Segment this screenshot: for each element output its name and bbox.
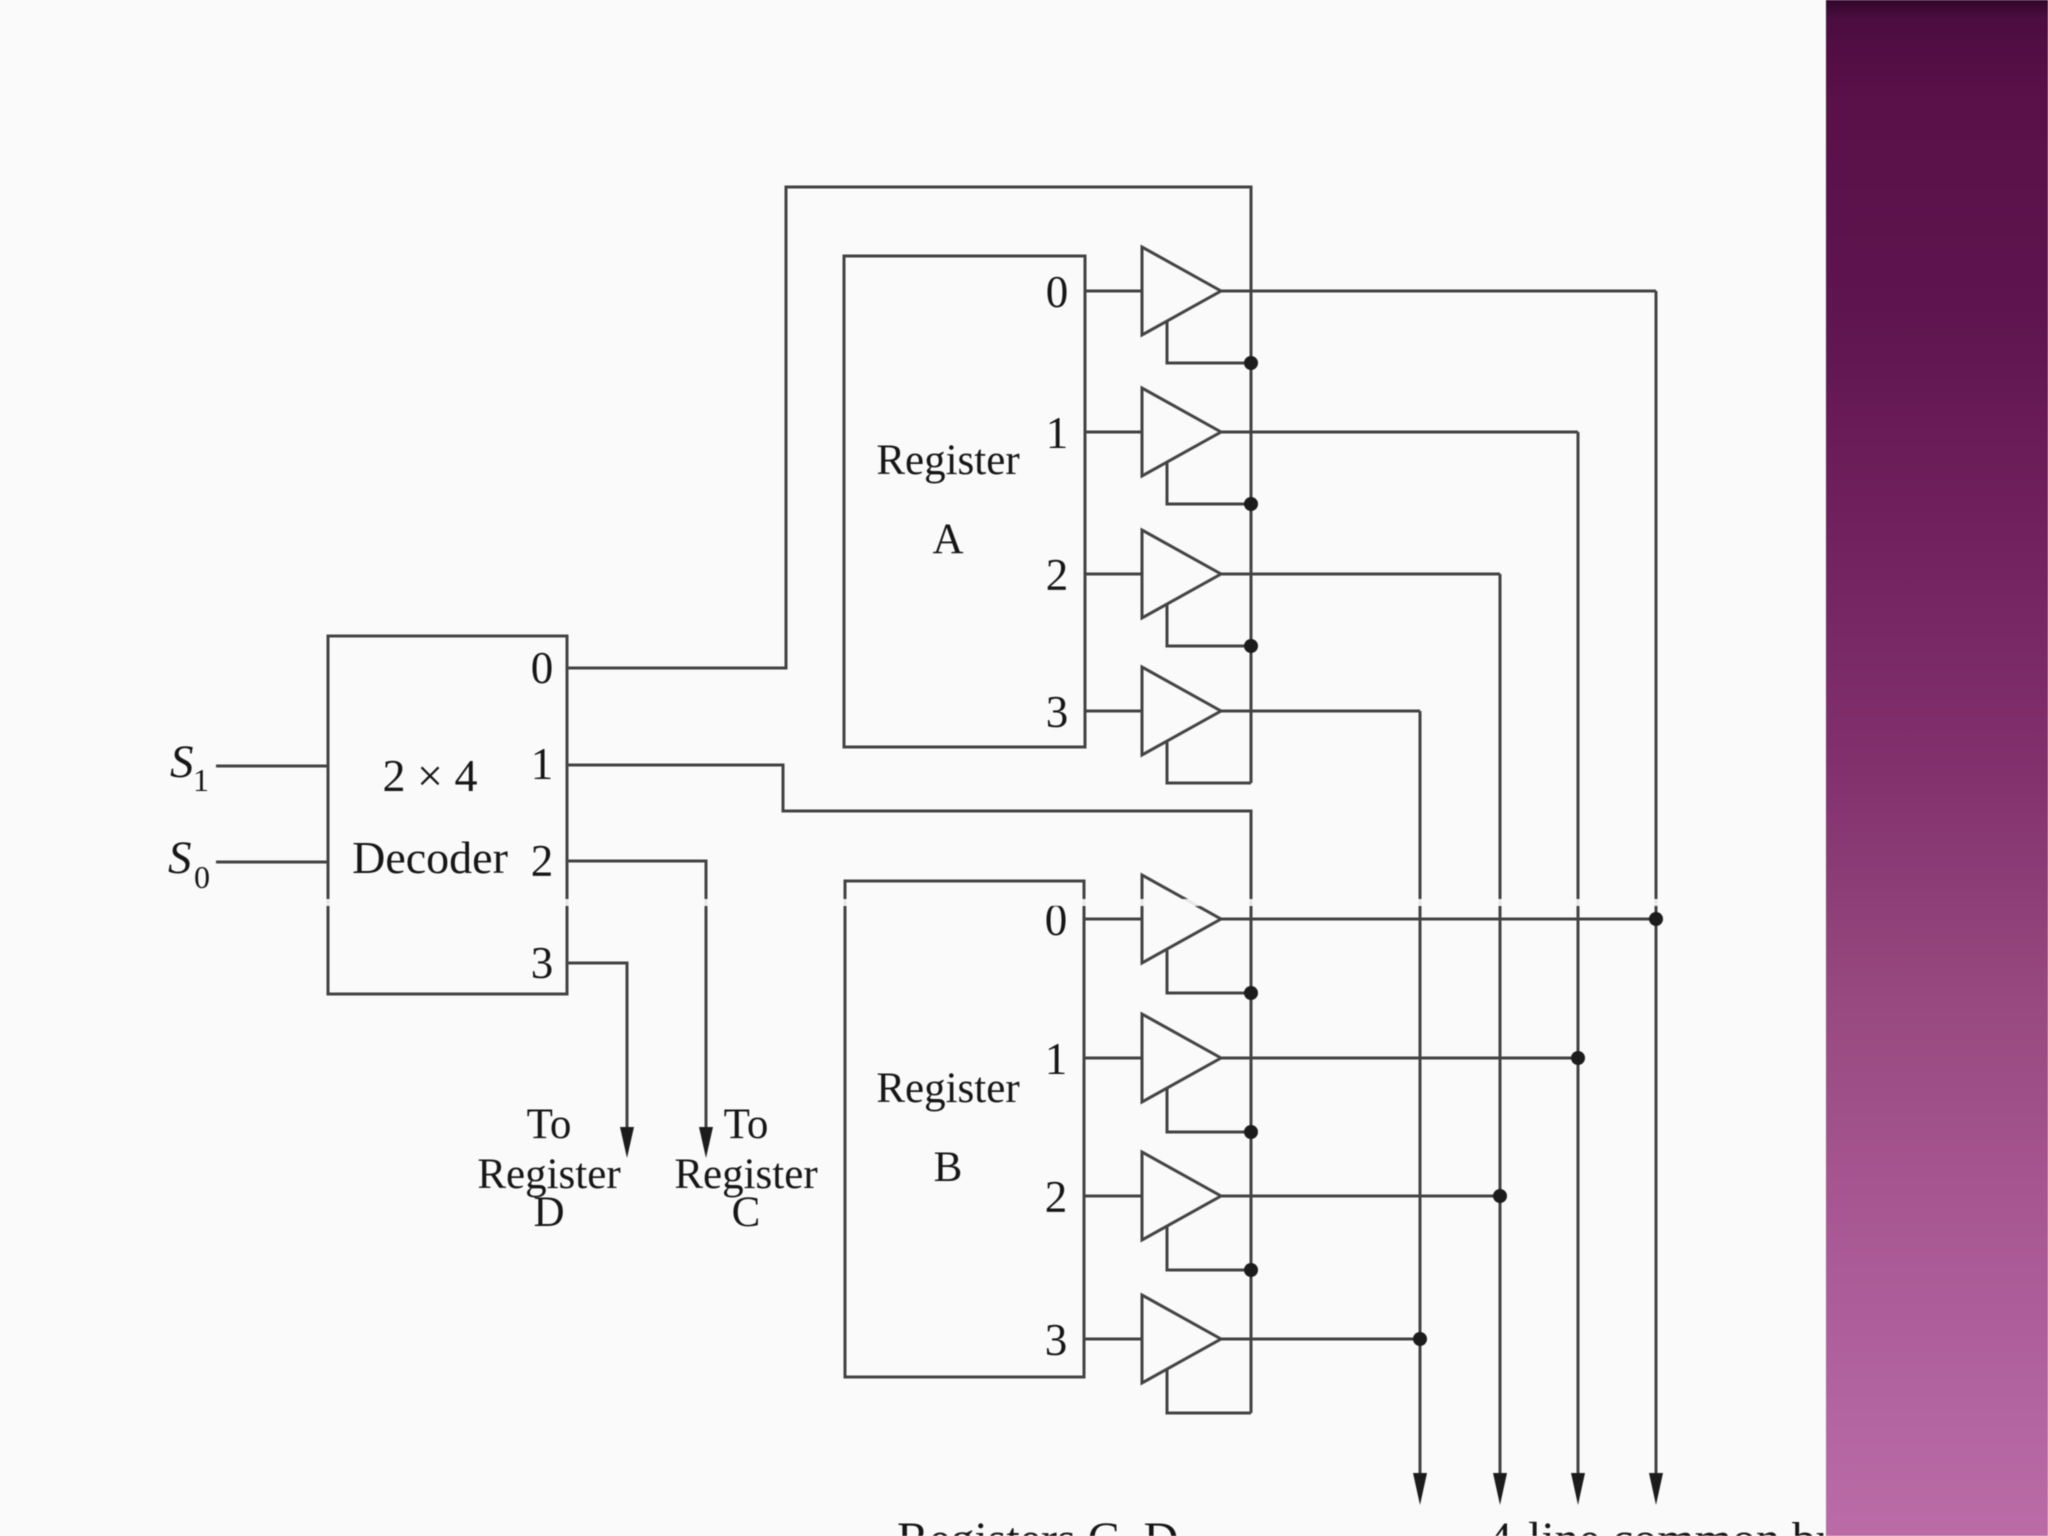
svg-text:3: 3 bbox=[1046, 687, 1069, 737]
wire buffer B2 out to bus2 bbox=[1221, 1195, 1500, 1198]
wire A bit0 to buffer bbox=[1085, 290, 1142, 293]
wire buffer A1 enable bbox=[1167, 463, 1251, 504]
wire bus line 1 bbox=[1577, 432, 1580, 1475]
wire decoder out 1 to Register B enable rail bbox=[567, 765, 1251, 1413]
svg-text:S: S bbox=[170, 736, 194, 788]
svg-text:B: B bbox=[934, 1144, 963, 1191]
svg-text:To: To bbox=[724, 1101, 769, 1148]
compression artifact band bbox=[0, 899, 1826, 906]
svg-text:Register: Register bbox=[876, 437, 1019, 484]
wire B bit2 to buffer bbox=[1084, 1195, 1142, 1198]
wire A bit1 to buffer bbox=[1085, 431, 1142, 434]
arrowhead bus2 bbox=[1493, 1473, 1507, 1505]
svg-text:D: D bbox=[533, 1189, 564, 1236]
wire buffer B3 enable bbox=[1167, 1370, 1251, 1413]
wire S0 input bbox=[216, 861, 328, 864]
wire decoder out 3 to Register D bbox=[567, 963, 627, 1128]
register B bbox=[845, 881, 1084, 1377]
arrowhead to Register C bbox=[699, 1127, 713, 1158]
wire A bit3 to buffer bbox=[1085, 710, 1142, 713]
svg-text:C: C bbox=[732, 1189, 761, 1236]
node junction bus2 B2 bbox=[1493, 1189, 1507, 1203]
svg-text:0: 0 bbox=[1046, 267, 1069, 317]
wire buffer B2 enable bbox=[1167, 1227, 1251, 1270]
node junction A0 enable bbox=[1244, 356, 1258, 370]
buffer B2 bbox=[1142, 1152, 1221, 1240]
wire buffer B1 enable bbox=[1167, 1089, 1251, 1132]
node junction A2 enable bbox=[1244, 639, 1258, 653]
buffer A1 bbox=[1142, 388, 1221, 476]
wire buffer A3 out to bus3 bbox=[1221, 710, 1420, 713]
wire buffer A2 out to bus2 bbox=[1221, 573, 1500, 576]
wire B bit0 to buffer bbox=[1084, 918, 1142, 921]
wire B bit1 to buffer bbox=[1084, 1057, 1142, 1060]
purple sidebar bbox=[1826, 0, 2048, 1536]
arrowhead bus1 bbox=[1571, 1473, 1585, 1505]
buffer B0 bbox=[1142, 875, 1221, 963]
svg-text:2: 2 bbox=[1045, 1172, 1068, 1222]
wire bus line 3 bbox=[1419, 711, 1422, 1475]
arrowhead bus3 bbox=[1413, 1473, 1427, 1505]
node junction A1 enable bbox=[1244, 497, 1258, 511]
svg-text:0: 0 bbox=[194, 859, 210, 895]
svg-text:4-line common bus: 4-line common bus bbox=[1488, 1513, 1859, 1536]
wire buffer B0 enable bbox=[1167, 950, 1251, 993]
wire decoder out 0 to Register A enable rail bbox=[567, 187, 1251, 783]
node junction B0 enable bbox=[1244, 986, 1258, 1000]
wire decoder out 2 to Register C bbox=[567, 861, 706, 1128]
svg-text:2: 2 bbox=[531, 836, 554, 886]
wire buffer B1 out to bus1 bbox=[1221, 1057, 1578, 1060]
svg-text:Register: Register bbox=[876, 1065, 1019, 1112]
svg-text:0: 0 bbox=[531, 643, 554, 693]
svg-text:1: 1 bbox=[531, 739, 554, 789]
buffer A3 bbox=[1142, 667, 1221, 755]
buffer B3 bbox=[1142, 1295, 1221, 1383]
node junction bus1 B1 bbox=[1571, 1051, 1585, 1065]
register A bbox=[844, 256, 1085, 747]
wire S1 input bbox=[216, 765, 328, 768]
svg-text:S: S bbox=[168, 832, 192, 884]
svg-text:To: To bbox=[527, 1101, 572, 1148]
svg-text:3: 3 bbox=[1045, 1315, 1068, 1365]
wire buffer A0 out to bus0 bbox=[1221, 290, 1656, 293]
wire buffer A2 enable bbox=[1167, 605, 1251, 646]
svg-text:1: 1 bbox=[1045, 1034, 1068, 1084]
svg-text:A: A bbox=[932, 516, 963, 563]
svg-text:3: 3 bbox=[531, 938, 554, 988]
buffer A0 bbox=[1142, 247, 1221, 335]
node junction B1 enable bbox=[1244, 1125, 1258, 1139]
buffer A2 bbox=[1142, 530, 1221, 618]
node junction B2 enable bbox=[1244, 1263, 1258, 1277]
svg-text:Registers C, D: Registers C, D bbox=[897, 1513, 1178, 1536]
wire B bit3 to buffer bbox=[1084, 1338, 1142, 1341]
wire buffer A3 enable bbox=[1167, 742, 1251, 783]
wire A bit2 to buffer bbox=[1085, 573, 1142, 576]
svg-text:2 × 4: 2 × 4 bbox=[383, 750, 478, 801]
wire buffer A1 out to bus1 bbox=[1221, 431, 1578, 434]
node junction bus3 B3 bbox=[1413, 1332, 1427, 1346]
svg-text:1: 1 bbox=[1046, 408, 1069, 458]
svg-text:1: 1 bbox=[193, 762, 209, 798]
wire bus line 0 bbox=[1655, 291, 1658, 1475]
wire buffer B0 out to bus0 bbox=[1221, 918, 1656, 921]
wire buffer B3 out to bus3 bbox=[1221, 1338, 1420, 1341]
decoder 2x4 bbox=[328, 636, 567, 994]
node junction bus0 B0 bbox=[1649, 912, 1663, 926]
arrowhead to Register D bbox=[620, 1127, 634, 1158]
svg-text:2: 2 bbox=[1046, 550, 1069, 600]
arrowhead bus0 bbox=[1649, 1473, 1663, 1505]
wire bus line 2 bbox=[1499, 574, 1502, 1475]
buffer B1 bbox=[1142, 1014, 1221, 1102]
svg-text:Decoder: Decoder bbox=[352, 832, 508, 883]
wire buffer A0 enable bbox=[1167, 322, 1251, 363]
